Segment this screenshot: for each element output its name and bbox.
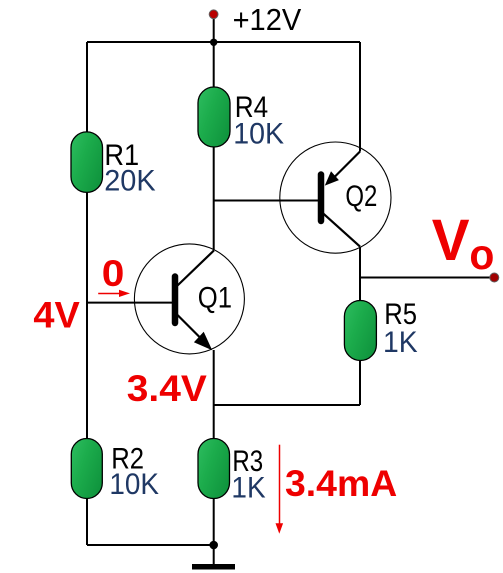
wire: right vertical top (+12V to Q2 emitter) — [359, 42, 361, 152]
wire: left vertical branch (R1/R2 chain) — [86, 42, 88, 545]
wire: top rail from left branch to right branch — [87, 41, 360, 43]
node: Vo output terminal (red) — [490, 273, 499, 282]
wire: center vertical lower (Q1 emitter to R3) — [213, 350, 215, 545]
resistor R3 — [198, 439, 230, 499]
svg-text:3.4V: 3.4V — [127, 368, 207, 409]
Q1 base bar — [172, 277, 179, 324]
transistor Q1 — [134, 244, 244, 354]
Q1 body circle — [134, 244, 244, 354]
Q1 collector lead — [178, 251, 214, 286]
wire: Vo output wire — [360, 277, 494, 279]
svg-text:V: V — [432, 208, 470, 273]
svg-text:10K: 10K — [109, 468, 159, 501]
svg-text:o: o — [469, 232, 494, 279]
wire: bottom rail to ground junction — [87, 544, 214, 546]
svg-text:20K: 20K — [104, 164, 155, 197]
resistor R5 — [344, 301, 376, 361]
node: ground junction dot — [209, 541, 218, 550]
svg-text:3.4mA: 3.4mA — [285, 463, 397, 504]
wire: bottom-right link — [214, 404, 360, 406]
Q2 body circle — [280, 142, 391, 253]
svg-text:0: 0 — [102, 253, 125, 294]
resistor R4 — [198, 87, 230, 147]
Q1 emitter lead — [178, 315, 203, 340]
wire: +12V terminal stub — [213, 15, 215, 42]
node: +12V supply terminal (red) — [209, 10, 218, 19]
ground — [192, 564, 235, 570]
arrow: emitter current 3.4mA — [279, 445, 281, 524]
Q2 emitter arrowhead — [325, 171, 339, 185]
Q2 emitter lead — [333, 152, 361, 180]
wire: right vertical (Q2 collector to R5, down to bottom link) — [359, 247, 361, 405]
svg-text:+12V: +12V — [233, 2, 302, 37]
wire: ground stub — [213, 545, 215, 564]
resistor R2 — [71, 439, 102, 499]
svg-text:1K: 1K — [231, 471, 265, 504]
wire: center vertical upper (R4, to Q1 collector) — [213, 42, 215, 251]
svg-text:Q1: Q1 — [198, 282, 232, 315]
Q2 collector lead — [323, 214, 360, 247]
resistor R1 — [71, 132, 103, 193]
svg-text:1K: 1K — [383, 326, 418, 359]
svg-text:4V: 4V — [33, 294, 80, 335]
transistor Q2 — [280, 142, 391, 253]
wire: Q1 base wire — [87, 302, 172, 304]
Q2 base bar — [318, 175, 325, 222]
svg-text:Q2: Q2 — [345, 180, 377, 213]
wire: branch to Q2 base — [214, 200, 319, 202]
node: +12V junction dot — [210, 39, 217, 46]
Q1 emitter arrowhead — [194, 332, 212, 350]
svg-text:10K: 10K — [233, 118, 284, 151]
arrow: base current — [98, 293, 120, 295]
